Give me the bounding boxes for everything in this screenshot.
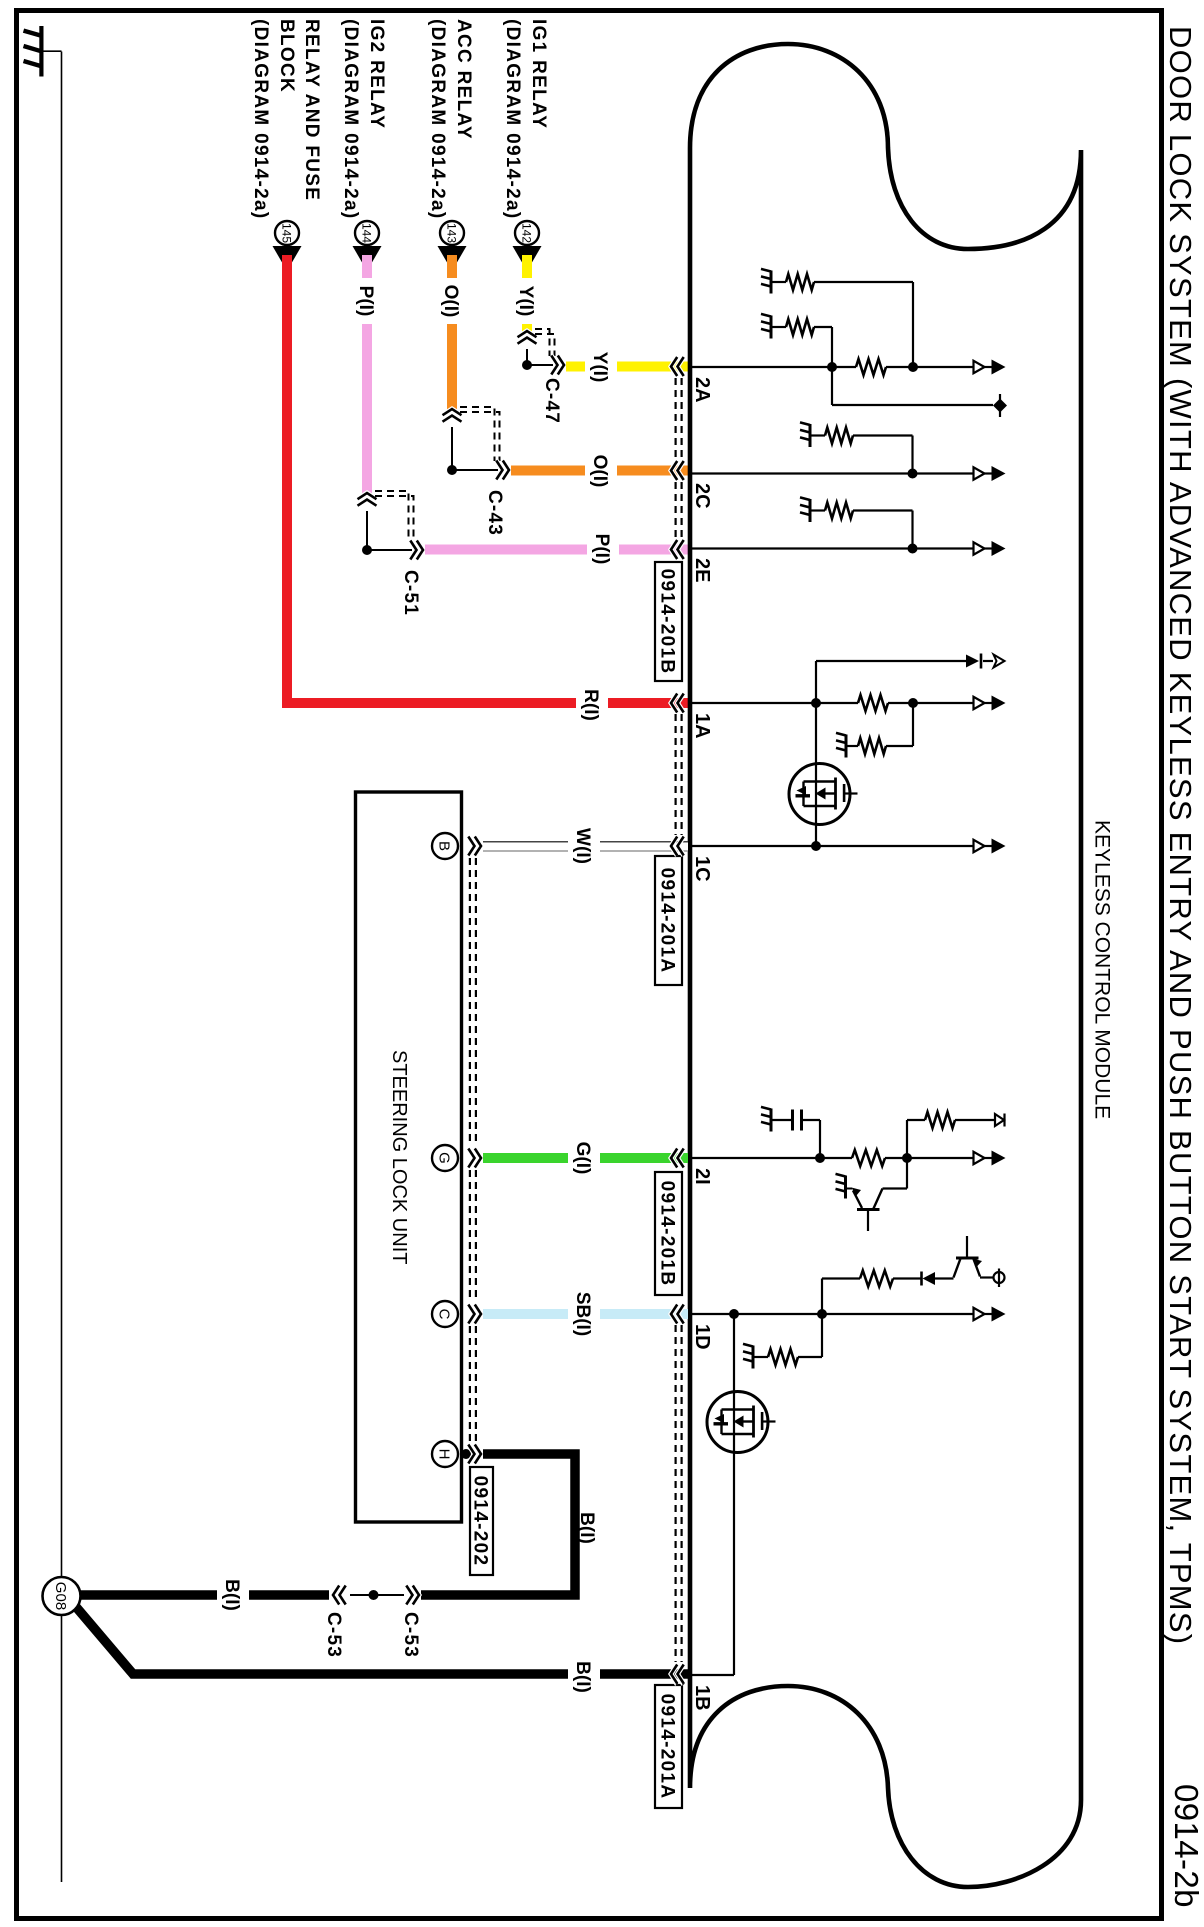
ground point G08 <box>43 1577 81 1615</box>
open arrow 2E <box>974 542 985 554</box>
label O(I) h <box>585 447 617 495</box>
svg-text:C-53: C-53 <box>323 1612 344 1658</box>
ground G-Q2 <box>836 1174 853 1199</box>
svg-text:0914-201B: 0914-201B <box>657 1181 678 1287</box>
svg-text:1D: 1D <box>691 1324 713 1350</box>
resistor R-2A-up1 <box>771 274 913 367</box>
connector C-47 dashes <box>535 329 555 356</box>
pin G circle <box>432 1145 458 1171</box>
connector dashes 2A-2C <box>676 378 682 460</box>
label Y(I) v <box>515 278 537 324</box>
filled arrow 2C <box>992 466 1006 481</box>
page number 0914-2b <box>1168 1784 1204 1908</box>
connector C-51 chevron up <box>358 493 377 506</box>
svg-text:IG2 RELAY: IG2 RELAY <box>366 19 387 129</box>
svg-text:Y(I): Y(I) <box>515 286 536 317</box>
junction dot C-53 <box>369 1590 379 1600</box>
svg-text:1A: 1A <box>691 713 713 739</box>
keyless control module outline <box>690 44 1081 1887</box>
resistor R-2A main <box>856 359 886 375</box>
svg-text:B: B <box>436 841 453 851</box>
arrow terminal 145 <box>273 246 302 271</box>
connector 0914-201B chevron 2E <box>671 540 684 559</box>
terminal circle Q3 <box>994 1269 1005 1288</box>
svg-text:142: 142 <box>520 223 534 243</box>
connector C-43 chevron up <box>443 409 462 422</box>
capacitor C-2I <box>771 1110 820 1159</box>
junction dot 2C <box>908 469 918 479</box>
svg-text:C: C <box>436 1309 453 1320</box>
wire 1A up <box>816 661 993 703</box>
svg-text:C-51: C-51 <box>400 570 421 616</box>
label W(I) <box>568 820 600 872</box>
connector 0914-201B chevron 2C <box>671 461 684 480</box>
svg-text:1B: 1B <box>691 1685 713 1711</box>
steering dashes B-G <box>470 858 476 1145</box>
label C-53 right <box>400 1612 421 1658</box>
arrow terminal 143 <box>438 246 467 271</box>
svg-text:0914-201A: 0914-201A <box>657 1694 678 1800</box>
svg-text:2E: 2E <box>691 558 713 582</box>
open arrow 1A <box>974 697 985 709</box>
margin line <box>61 52 63 1883</box>
svg-text:DOOR LOCK SYSTEM (WITH ADVANCE: DOOR LOCK SYSTEM (WITH ADVANCED KEYLESS … <box>1163 26 1198 1645</box>
connector dashes 2C-2E <box>676 482 682 539</box>
svg-text:Y(I): Y(I) <box>589 352 610 383</box>
connector C-47 chevron right <box>551 356 564 375</box>
wire diode to Q3 <box>935 1277 954 1279</box>
svg-text:B(I): B(I) <box>572 1661 593 1693</box>
junction dot 1D-1 <box>729 1309 739 1319</box>
label P(I) v <box>355 278 377 324</box>
junction dot H <box>461 1449 471 1459</box>
diamond terminal <box>993 394 1007 417</box>
label C-51 <box>400 570 421 616</box>
filled arrow 2I <box>992 1151 1006 1166</box>
mosfet Q1 <box>789 764 858 825</box>
pin 1D wire <box>692 1313 992 1315</box>
connector C-47 chevron up <box>518 331 537 344</box>
pin H chevron <box>468 1445 481 1464</box>
pin 1B label <box>691 1685 713 1711</box>
wire P(I) horizontal <box>425 545 688 555</box>
ground G-2A-1 <box>761 269 771 294</box>
connector C-43 chevron right <box>496 461 509 480</box>
open arrow 2A <box>974 361 985 373</box>
wire 1D to mosfet <box>733 1314 735 1675</box>
svg-text:STEERING LOCK UNIT: STEERING LOCK UNIT <box>388 1050 410 1264</box>
label relay and fuse block <box>250 19 322 220</box>
svg-text:BLOCK: BLOCK <box>276 19 297 93</box>
resistor R-1D-low <box>753 1314 822 1365</box>
wire B(I) G08 right <box>79 1590 329 1600</box>
open arrow diode 1A <box>994 655 1005 668</box>
pin 2I wire <box>692 1157 992 1159</box>
wire Y(I) horizontal <box>566 362 688 372</box>
resistor R-1A-low <box>846 703 913 754</box>
svg-text:2I: 2I <box>691 1168 713 1185</box>
connector C-53 chevron left <box>333 1586 346 1605</box>
junction dot 2E <box>908 544 918 554</box>
resistor R-2A-up2 <box>771 319 832 367</box>
svg-text:P(I): P(I) <box>355 286 376 317</box>
wire B(I) from H <box>421 1454 575 1595</box>
diode D-1D <box>922 1272 936 1286</box>
arrow terminal 142 <box>513 246 542 271</box>
junction dot 1A-1 <box>811 698 821 708</box>
connector C-51 chevron right <box>410 541 423 560</box>
wire to diode <box>893 1277 921 1279</box>
connector 0914-201B chevron 1D <box>671 1305 684 1324</box>
svg-text:(DIAGRAM 0914-2a): (DIAGRAM 0914-2a) <box>427 19 448 220</box>
resistor R-2E <box>810 503 913 549</box>
svg-text:(DIAGRAM 0914-2a): (DIAGRAM 0914-2a) <box>502 19 523 220</box>
filled arrow 1A <box>992 696 1006 711</box>
svg-text:0914-202: 0914-202 <box>470 1476 491 1567</box>
pin H circle <box>432 1441 458 1467</box>
svg-text:R(I): R(I) <box>580 689 601 721</box>
svg-text:B(I): B(I) <box>576 1512 597 1544</box>
pin 1A wire <box>692 702 992 704</box>
connector ref 143 <box>440 221 464 245</box>
svg-text:W(I): W(I) <box>572 828 593 864</box>
ground G-1A <box>836 733 846 758</box>
wire stub C-51 <box>367 511 412 550</box>
svg-text:SB(I): SB(I) <box>572 1292 593 1336</box>
svg-text:144: 144 <box>360 223 374 243</box>
svg-text:IG1 RELAY: IG1 RELAY <box>528 19 549 129</box>
svg-text:G(I): G(I) <box>572 1142 593 1175</box>
pin B chevron <box>468 837 481 856</box>
connector box 0914-201A (1B) <box>655 1685 682 1808</box>
svg-text:1C: 1C <box>691 856 713 882</box>
resistor R-2I-up <box>907 1112 995 1158</box>
pin 2C wire <box>692 472 992 474</box>
label IG1 relay <box>502 19 549 220</box>
wire 1D up <box>822 1279 860 1315</box>
wire C-53 link <box>350 1594 404 1596</box>
label C-47 <box>541 378 562 424</box>
open arrow 2C <box>974 467 985 479</box>
label C-43 <box>484 490 505 536</box>
junction dot 1D-2 <box>817 1309 827 1319</box>
resistor R-1A main <box>858 695 888 711</box>
pin 2E wire <box>692 547 992 549</box>
svg-text:145: 145 <box>280 223 294 243</box>
wire O(I) vertical <box>447 255 457 410</box>
wire 1A-1C vertical <box>815 703 817 846</box>
wire Y(I) vertical <box>522 255 532 332</box>
pin B circle <box>432 833 458 859</box>
svg-text:G: G <box>436 1152 453 1164</box>
wire O(I) horizontal <box>511 466 688 476</box>
ground G-2E <box>800 497 810 522</box>
connector C-53 chevron right <box>406 1586 419 1605</box>
wire stub C-43 <box>452 427 498 470</box>
svg-text:0914-2b: 0914-2b <box>1168 1784 1204 1908</box>
junction dot 1A-2 <box>908 698 918 708</box>
svg-text:0914-201B: 0914-201B <box>657 569 678 675</box>
label P(I) h <box>587 525 619 573</box>
pin 1D label <box>691 1324 713 1350</box>
connector box 0914-202 <box>470 1467 493 1575</box>
connector ref 142 <box>515 221 539 245</box>
svg-text:RELAY AND FUSE: RELAY AND FUSE <box>301 19 322 201</box>
junction dot 2A-1 <box>827 362 837 372</box>
svg-text:143: 143 <box>445 223 459 243</box>
ground G-1D <box>743 1344 753 1369</box>
wire R(I) <box>287 255 688 703</box>
wire SB(I) <box>483 1309 688 1319</box>
junction dot C-47 <box>522 360 532 370</box>
wire 2I transistor <box>883 1158 908 1189</box>
junction dot C-51 <box>362 545 372 555</box>
svg-text:O(I): O(I) <box>440 285 461 318</box>
arrow terminal 144 <box>353 246 382 271</box>
pin 2A wire <box>692 366 992 368</box>
open arrow 1C <box>974 840 985 852</box>
arrow with bar 2I <box>995 1114 1005 1127</box>
junction dot 2I-1 <box>815 1153 825 1163</box>
label B(I) vertical <box>576 1512 597 1544</box>
label SB(I) <box>568 1283 600 1345</box>
svg-text:(DIAGRAM 0914-2a): (DIAGRAM 0914-2a) <box>250 19 271 220</box>
svg-text:2A: 2A <box>691 377 713 403</box>
filled arrow 1C <box>992 839 1006 854</box>
connector 0914-201A chevron 1B end <box>671 1665 684 1684</box>
label IG2 relay <box>340 19 387 220</box>
transistor Q3 <box>954 1236 994 1278</box>
svg-text:G08: G08 <box>52 1582 69 1610</box>
svg-text:2C: 2C <box>691 483 713 509</box>
pin 2C label <box>691 483 713 509</box>
connector box 0914-201B (2) <box>655 562 682 681</box>
connector 0914-201B chevron 2A <box>671 357 684 376</box>
svg-text:ACC RELAY: ACC RELAY <box>453 19 474 140</box>
connector dashes 1D-1B <box>676 1325 682 1662</box>
pin 2I label <box>691 1168 713 1185</box>
connector ref 145 <box>275 221 299 245</box>
svg-text:C-53: C-53 <box>400 1612 421 1658</box>
svg-text:KEYLESS CONTROL MODULE: KEYLESS CONTROL MODULE <box>1090 820 1113 1119</box>
svg-text:(DIAGRAM 0914-2a): (DIAGRAM 0914-2a) <box>340 19 361 220</box>
label B(I) h2 <box>568 1651 600 1703</box>
label O(I) v <box>440 278 462 324</box>
filled arrow 2E <box>992 541 1006 556</box>
pin 1C label <box>691 856 713 882</box>
ground G-2C <box>800 422 810 447</box>
pin 2E label <box>691 558 713 582</box>
transistor Q2 <box>852 1188 883 1232</box>
junction dot 1C <box>811 841 821 851</box>
ground G-2I-cap <box>761 1107 771 1132</box>
pin 1C wire <box>692 845 992 847</box>
svg-text:0914-201A: 0914-201A <box>657 868 678 974</box>
steering dashes G-C <box>470 1170 476 1302</box>
steering lock unit box <box>356 792 462 1522</box>
resistor R-1D-up <box>860 1271 893 1287</box>
connector 0914-201A chevron 1A <box>671 694 684 713</box>
pin 1A label <box>691 713 713 739</box>
mosfet Q4 <box>707 1392 776 1453</box>
connector box 0914-201A (1) <box>655 856 682 985</box>
diode D-1A <box>966 654 981 669</box>
wire W(I) <box>483 842 688 852</box>
wire B(I) lower <box>71 1601 688 1674</box>
svg-text:O(I): O(I) <box>589 455 610 488</box>
connector dashes 1A-1C <box>676 714 682 835</box>
label B(I) h1 <box>217 1569 249 1621</box>
pin 1B wire <box>692 1674 734 1676</box>
steering dashes C-H <box>470 1326 476 1444</box>
wire P(I) vertical <box>362 255 372 494</box>
resistor R-2C <box>810 428 913 474</box>
connector C-51 dashes <box>375 491 414 541</box>
filled arrow 1D <box>992 1307 1006 1322</box>
open arrow 1D <box>974 1308 985 1320</box>
junction dot C-43 <box>447 465 457 475</box>
label steering lock unit <box>388 1050 410 1264</box>
corner ground mark <box>24 26 62 77</box>
connector ref 144 <box>355 221 379 245</box>
junction dot 2I-2 <box>902 1153 912 1163</box>
connector 0914-201A chevron 1B <box>671 1666 684 1685</box>
connector C-43 dashes <box>460 407 500 461</box>
wire G(I) <box>483 1153 688 1163</box>
label Y(I) h <box>585 343 617 391</box>
svg-text:H: H <box>436 1449 453 1460</box>
pin 2A label <box>691 377 713 403</box>
svg-text:C-47: C-47 <box>541 378 562 424</box>
junction dot 2A-2 <box>908 362 918 372</box>
open arrow 2I <box>974 1152 985 1164</box>
label R(I) <box>576 681 608 729</box>
svg-text:C-43: C-43 <box>484 490 505 536</box>
connector 0914-201A chevron 1C <box>671 837 684 856</box>
connector box 0914-201B (2I) <box>655 1172 682 1295</box>
svg-text:P(I): P(I) <box>591 534 612 565</box>
label G(I) <box>568 1134 600 1182</box>
resistor R-2I main <box>852 1150 885 1166</box>
label keyless control module <box>1090 820 1113 1119</box>
wire 2A to diamond <box>832 367 993 405</box>
wire stub C-47 <box>527 349 553 365</box>
filled arrow 2A <box>992 360 1006 375</box>
svg-text:B(I): B(I) <box>221 1579 242 1611</box>
pin G chevron <box>468 1149 481 1168</box>
label C-53 left <box>323 1612 344 1658</box>
label ACC relay <box>427 19 474 220</box>
connector 0914-201B chevron 2I <box>671 1149 684 1168</box>
ground G-2A-2 <box>761 314 771 339</box>
pin C circle <box>432 1301 458 1327</box>
title DOOR LOCK SYSTEM <box>1163 26 1198 1645</box>
pin C chevron <box>468 1305 481 1324</box>
